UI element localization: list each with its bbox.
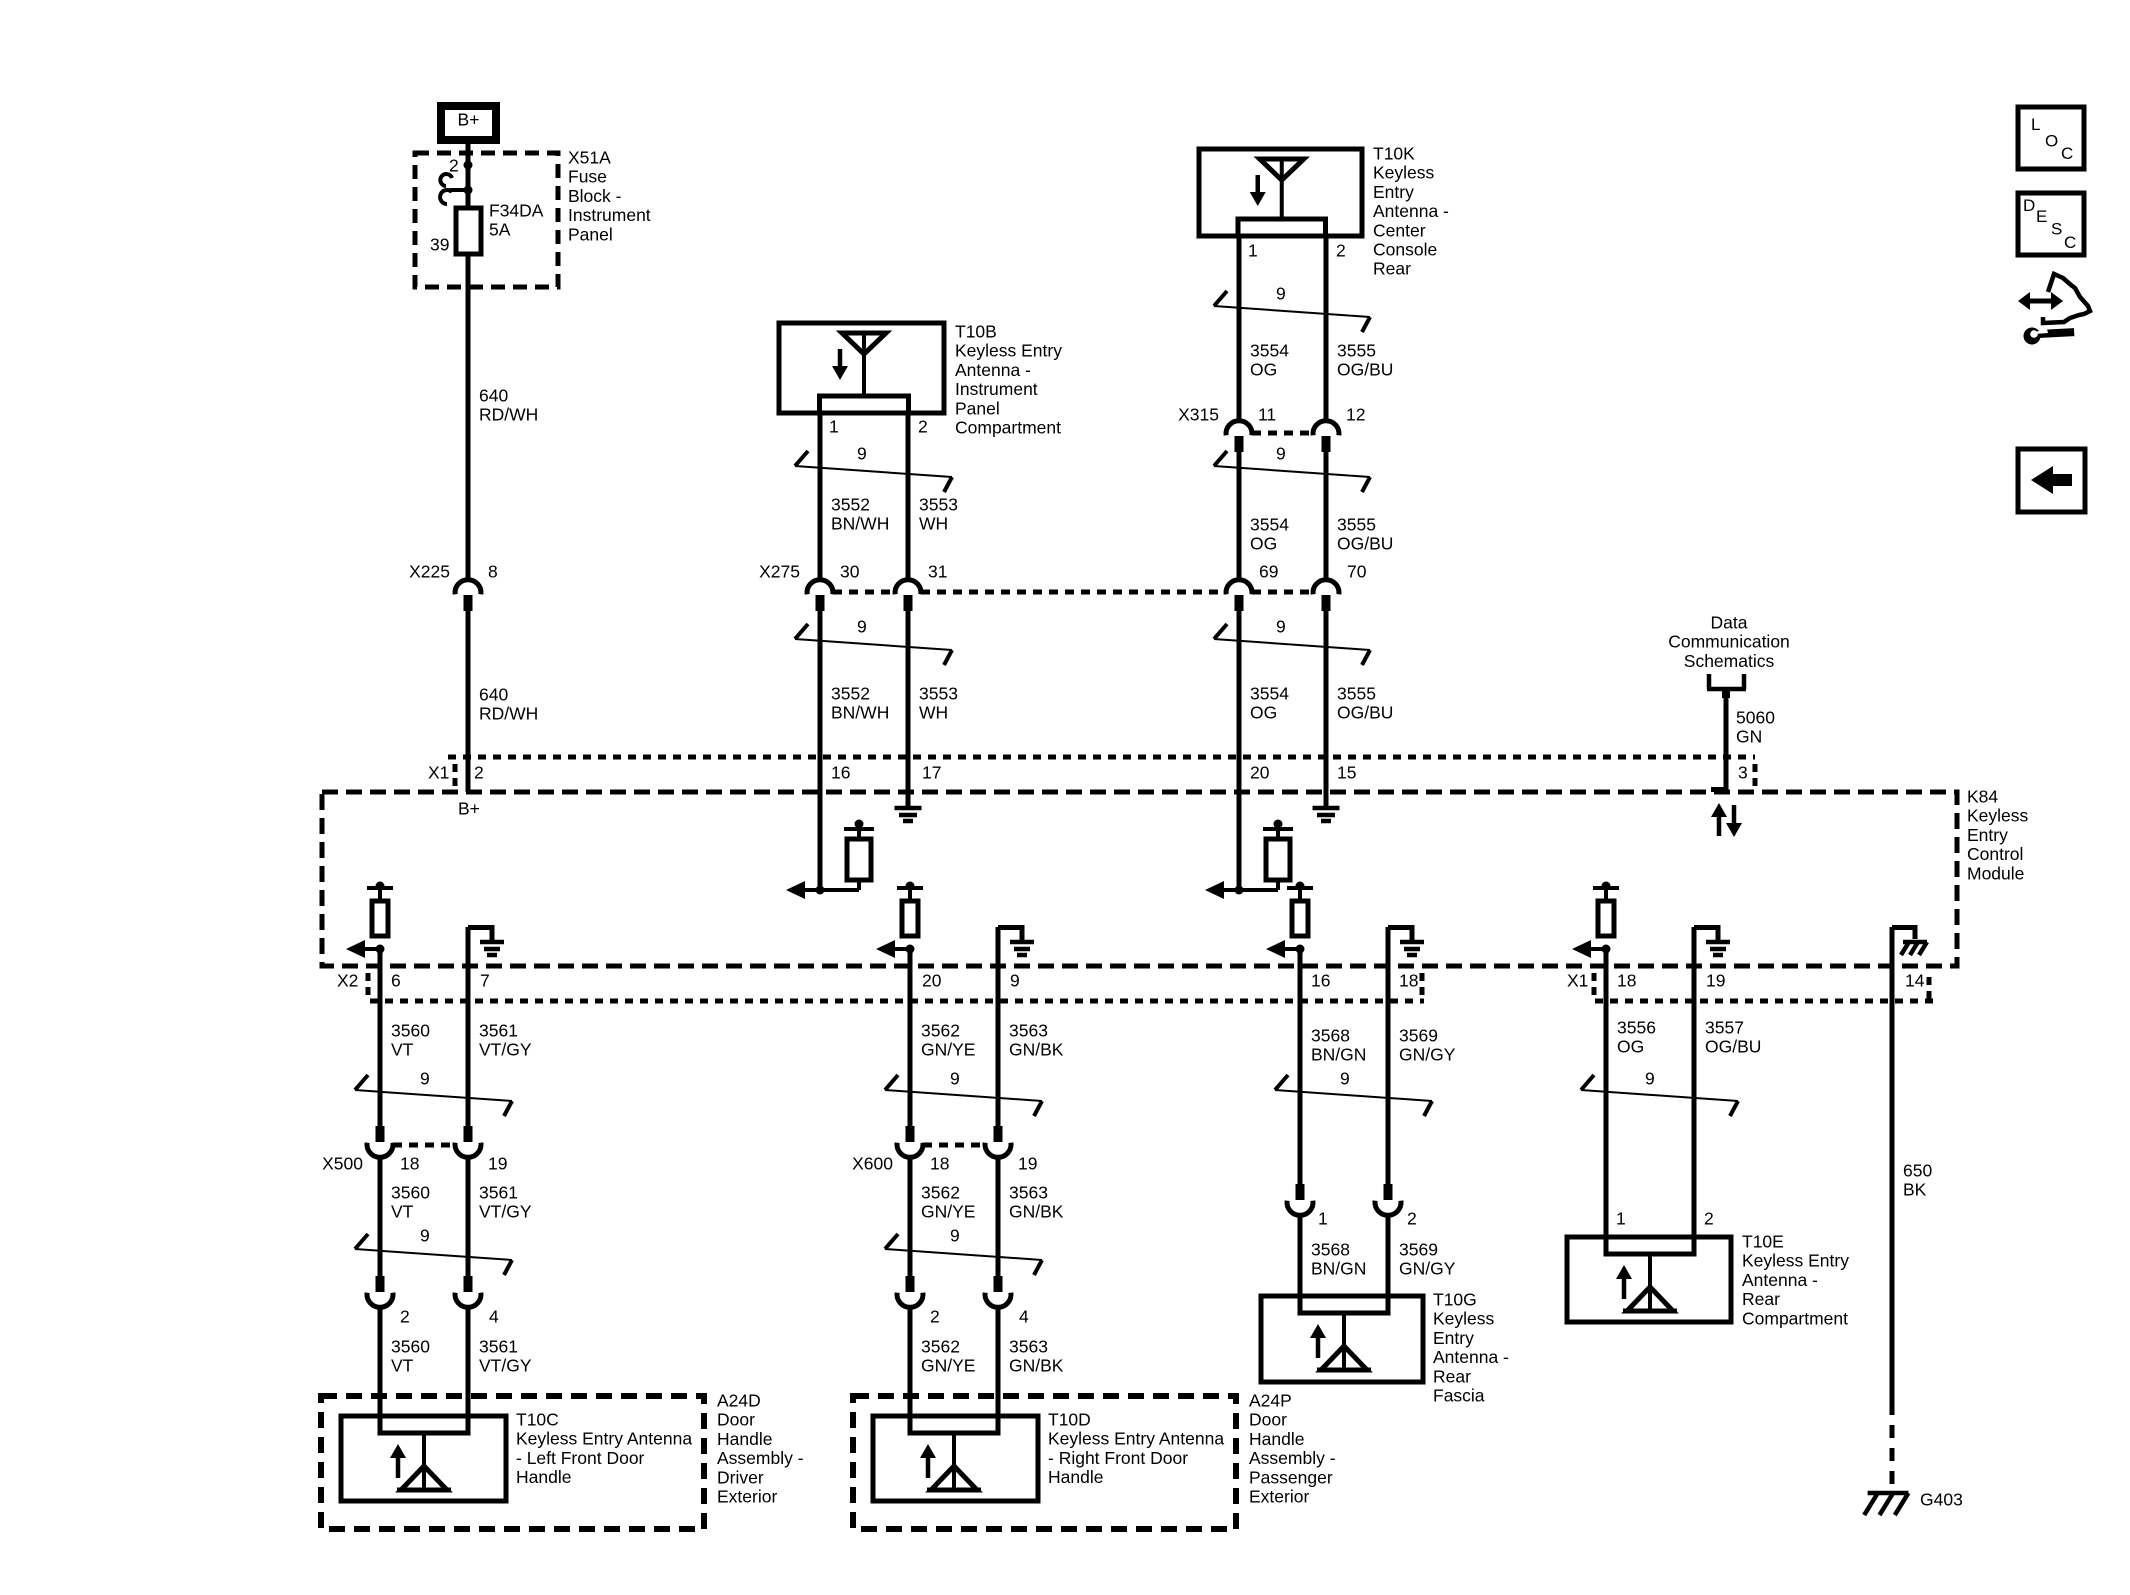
label 3569 GN/GY (row2) bbox=[1399, 1240, 1456, 1279]
svg-text:9: 9 bbox=[420, 1226, 430, 1246]
connector strip X1 (top) bbox=[428, 757, 1755, 790]
pin 39 label bbox=[430, 235, 449, 255]
svg-text:Panel: Panel bbox=[568, 224, 613, 244]
svg-text:X1: X1 bbox=[1567, 971, 1588, 991]
wire 3554 X275 to K84 X1-20 bbox=[1237, 611, 1242, 761]
svg-text:VT: VT bbox=[391, 1202, 414, 1222]
svg-text:3561: 3561 bbox=[479, 1183, 518, 1203]
svg-text:1: 1 bbox=[1616, 1209, 1626, 1229]
wire 3553 X275 to K84 X1-17 bbox=[906, 611, 911, 761]
svg-text:18: 18 bbox=[1617, 971, 1636, 991]
svg-text:Rear: Rear bbox=[1742, 1289, 1780, 1309]
pin 2 label (T10K) bbox=[1336, 241, 1346, 261]
svg-text:9: 9 bbox=[857, 444, 867, 464]
label T10G Keyless Entry Antenna - Rear Fascia bbox=[1433, 1290, 1509, 1406]
svg-text:Instrument: Instrument bbox=[955, 379, 1038, 399]
pin 17 label (X1) bbox=[922, 763, 941, 783]
svg-text:39: 39 bbox=[430, 235, 449, 255]
label 3552 BN/WH (lower) bbox=[831, 684, 889, 723]
svg-text:BN/WH: BN/WH bbox=[831, 703, 889, 723]
svg-text:OG/BU: OG/BU bbox=[1337, 360, 1393, 380]
svg-text:WH: WH bbox=[919, 514, 948, 534]
label B+ (module internal) bbox=[458, 799, 480, 819]
svg-text:Handle: Handle bbox=[1048, 1467, 1103, 1487]
svg-text:3562: 3562 bbox=[921, 1337, 960, 1357]
pin 7 label (X2) bbox=[480, 971, 490, 991]
wire 3563 X600 to pin4 bbox=[996, 1158, 1001, 1276]
svg-text:Driver: Driver bbox=[717, 1467, 764, 1487]
svg-text:3554: 3554 bbox=[1250, 341, 1289, 361]
svg-text:A24D: A24D bbox=[717, 1391, 761, 1411]
svg-text:O: O bbox=[2045, 132, 2058, 151]
svg-text:9: 9 bbox=[1276, 617, 1286, 637]
svg-text:3552: 3552 bbox=[831, 495, 870, 515]
wire 650 BK dashed section bbox=[1890, 1402, 1895, 1491]
inline connector X275 pins 69 70 bbox=[1226, 562, 1367, 612]
ground symbol pin 19 (X1) bbox=[1694, 925, 1730, 955]
label A24D Door Handle Assembly - Driver Exterior bbox=[717, 1391, 804, 1507]
pin 2 label (T10B) bbox=[918, 417, 928, 437]
antenna driver circuit pin 20 (X2) bbox=[876, 882, 923, 959]
svg-text:GN/BK: GN/BK bbox=[1009, 1040, 1064, 1060]
inline connector T10G pin 2 bbox=[1375, 1184, 1417, 1229]
label 3568 BN/GN (row1) bbox=[1311, 1026, 1366, 1065]
svg-text:A24P: A24P bbox=[1249, 1391, 1292, 1411]
svg-text:Antenna -: Antenna - bbox=[955, 360, 1031, 380]
label 3552 BN/WH (upper) bbox=[831, 495, 889, 534]
svg-text:OG: OG bbox=[1250, 534, 1277, 554]
fuse block X51A dashed box bbox=[415, 153, 558, 287]
pin 2 label (X1) bbox=[474, 763, 484, 783]
svg-text:18: 18 bbox=[1399, 971, 1418, 991]
svg-text:GN/BK: GN/BK bbox=[1009, 1356, 1064, 1376]
pin 16 label (X1) bbox=[831, 763, 850, 783]
battery feed B+ symbol bbox=[437, 102, 500, 144]
wire 3557 X1 to T10E bbox=[1692, 1001, 1697, 1254]
svg-text:Communication: Communication bbox=[1668, 632, 1790, 652]
label Data Communication Schematics bbox=[1668, 613, 1790, 671]
svg-text:3568: 3568 bbox=[1311, 1026, 1350, 1046]
wire 3568 to T10G bbox=[1298, 1216, 1303, 1313]
label 3553 WH (upper) bbox=[919, 495, 958, 534]
svg-text:18: 18 bbox=[400, 1154, 419, 1174]
wire 3562 X2 to X600 bbox=[908, 1001, 913, 1126]
label T10K Keyless Entry Antenna - Center Console Rear bbox=[1373, 144, 1449, 279]
connector strip X1 (bottom right) bbox=[1567, 971, 1936, 1006]
svg-text:3563: 3563 bbox=[1009, 1183, 1048, 1203]
svg-text:Handle: Handle bbox=[516, 1467, 571, 1487]
label 3554 OG (upper) bbox=[1250, 341, 1289, 380]
svg-text:20: 20 bbox=[922, 971, 942, 991]
svg-text:VT/GY: VT/GY bbox=[479, 1356, 532, 1376]
svg-text:Module: Module bbox=[1967, 863, 2024, 883]
svg-text:Keyless Entry Antenna: Keyless Entry Antenna bbox=[516, 1429, 692, 1449]
svg-text:B+: B+ bbox=[458, 110, 480, 130]
fuse F34DA 5A bbox=[456, 208, 481, 254]
antenna T10K box bbox=[1199, 149, 1362, 236]
svg-text:Rear: Rear bbox=[1433, 1366, 1471, 1386]
svg-text:C: C bbox=[2064, 233, 2076, 252]
wire pin16 to X2 bbox=[1298, 949, 1303, 1001]
antenna T10G box bbox=[1261, 1296, 1423, 1382]
pin 18 label (X1 bottom) bbox=[1617, 971, 1636, 991]
svg-text:C: C bbox=[2061, 144, 2073, 163]
svg-text:VT/GY: VT/GY bbox=[479, 1040, 532, 1060]
svg-text:T10C: T10C bbox=[516, 1410, 559, 1430]
svg-text:X275: X275 bbox=[759, 562, 800, 582]
svg-text:3563: 3563 bbox=[1009, 1337, 1048, 1357]
door handle assembly A24D dashed box bbox=[321, 1396, 704, 1529]
svg-text:640: 640 bbox=[479, 685, 508, 705]
svg-text:69: 69 bbox=[1259, 562, 1278, 582]
ground symbol pin 18 (X2) bbox=[1388, 925, 1424, 955]
svg-text:Antenna -: Antenna - bbox=[1742, 1270, 1818, 1290]
label 3568 BN/GN (row2) bbox=[1311, 1240, 1366, 1279]
inline connector T10C pin 4 bbox=[455, 1276, 499, 1327]
label 650 BK bbox=[1903, 1161, 1932, 1200]
svg-text:RD/WH: RD/WH bbox=[479, 405, 538, 425]
svg-text:X500: X500 bbox=[322, 1154, 363, 1174]
wire pin19 to X1 bbox=[1692, 927, 1697, 1001]
antenna T10E box bbox=[1567, 1237, 1731, 1322]
wire B+ to fuse bbox=[466, 144, 471, 208]
svg-text:7: 7 bbox=[480, 971, 490, 991]
svg-text:Rear: Rear bbox=[1373, 259, 1411, 279]
svg-text:GN/GY: GN/GY bbox=[1399, 1259, 1456, 1279]
svg-text:Handle: Handle bbox=[1249, 1429, 1304, 1449]
pin 2 label (T10E) bbox=[1704, 1209, 1714, 1229]
svg-text:3555: 3555 bbox=[1337, 341, 1376, 361]
wire 3552 T10B to X275 bbox=[818, 413, 823, 579]
svg-text:GN/YE: GN/YE bbox=[921, 1040, 975, 1060]
svg-text:12: 12 bbox=[1346, 405, 1365, 425]
svg-text:K84: K84 bbox=[1967, 787, 1998, 807]
svg-text:X1: X1 bbox=[428, 763, 449, 783]
svg-text:Control: Control bbox=[1967, 844, 2023, 864]
svg-text:19: 19 bbox=[1706, 971, 1725, 991]
ground symbol pin 15 bbox=[1313, 808, 1340, 821]
svg-text:X600: X600 bbox=[852, 1154, 893, 1174]
svg-text:Passenger: Passenger bbox=[1249, 1467, 1333, 1487]
connector strip X2 (bottom left) bbox=[337, 971, 1424, 1002]
svg-text:Antenna -: Antenna - bbox=[1433, 1347, 1509, 1367]
svg-text:Schematics: Schematics bbox=[1684, 651, 1775, 671]
svg-text:16: 16 bbox=[831, 763, 850, 783]
svg-text:6: 6 bbox=[391, 971, 401, 991]
label 3562 GN/YE (row2) bbox=[921, 1183, 975, 1222]
inline connector T10D pin 4 bbox=[985, 1276, 1029, 1327]
svg-text:19: 19 bbox=[488, 1154, 507, 1174]
svg-text:Entry: Entry bbox=[1967, 825, 2008, 845]
label 3556 OG bbox=[1617, 1018, 1656, 1057]
svg-text:9: 9 bbox=[1276, 444, 1286, 464]
svg-text:Entry: Entry bbox=[1433, 1328, 1474, 1348]
svg-text:VT/GY: VT/GY bbox=[479, 1202, 532, 1222]
svg-text:650: 650 bbox=[1903, 1161, 1932, 1181]
label T10B Keyless Entry Antenna - Instrument Panel Compartment bbox=[955, 322, 1062, 438]
svg-text:Data: Data bbox=[1711, 613, 1748, 633]
svg-text:4: 4 bbox=[1019, 1307, 1029, 1327]
antenna T10B box bbox=[779, 323, 944, 413]
svg-text:BN/GN: BN/GN bbox=[1311, 1045, 1366, 1065]
svg-text:9: 9 bbox=[1276, 284, 1286, 304]
wire 3555 X275 to K84 X1-15 bbox=[1324, 611, 1329, 761]
svg-text:Entry: Entry bbox=[1373, 182, 1414, 202]
chassis ground symbol pin 14 bbox=[1892, 925, 1927, 955]
wire 3569 X2 to T10G pin2 bbox=[1386, 1001, 1391, 1184]
wire pin3 into module bbox=[1711, 757, 1726, 790]
label T10D Keyless Entry Antenna - Right Front Door Handle bbox=[1048, 1410, 1224, 1488]
svg-text:3557: 3557 bbox=[1705, 1018, 1744, 1038]
twisted pair T10E bbox=[1581, 1069, 1738, 1117]
svg-text:E: E bbox=[2036, 207, 2047, 226]
svg-text:Handle: Handle bbox=[717, 1429, 772, 1449]
svg-text:OG/BU: OG/BU bbox=[1705, 1037, 1761, 1057]
twisted pair T10C lower bbox=[355, 1226, 512, 1276]
svg-text:9: 9 bbox=[857, 617, 867, 637]
svg-text:X315: X315 bbox=[1178, 405, 1219, 425]
antenna driver circuit pin 6 (X2) bbox=[346, 882, 393, 959]
label 3563 GN/BK (row3) bbox=[1009, 1337, 1064, 1376]
label 640 RD/WH (upper) bbox=[479, 386, 538, 425]
wire pin15 into module bbox=[1324, 757, 1329, 806]
svg-text:2: 2 bbox=[474, 763, 484, 783]
svg-text:20: 20 bbox=[1250, 763, 1270, 783]
svg-text:X51A: X51A bbox=[568, 148, 611, 168]
antenna driver circuit pin 16 bbox=[786, 820, 874, 900]
wire 3555 T10K to X315 bbox=[1324, 236, 1329, 420]
wire 3553 T10B to X275 bbox=[906, 413, 911, 579]
svg-text:Assembly -: Assembly - bbox=[1249, 1448, 1336, 1468]
label 3560 VT (row2) bbox=[391, 1183, 430, 1222]
svg-text:3554: 3554 bbox=[1250, 515, 1289, 535]
label F34DA 5A bbox=[489, 201, 544, 240]
svg-text:OG/BU: OG/BU bbox=[1337, 703, 1393, 723]
svg-text:Keyless: Keyless bbox=[1373, 163, 1435, 183]
svg-text:X2: X2 bbox=[337, 971, 358, 991]
svg-text:18: 18 bbox=[930, 1154, 949, 1174]
wire 3563 X2 to X600 bbox=[996, 1001, 1001, 1126]
wire 3563 to T10D bbox=[996, 1308, 1001, 1433]
svg-text:2: 2 bbox=[918, 417, 928, 437]
pin 19 label (X1 bottom) bbox=[1706, 971, 1725, 991]
svg-text:T10K: T10K bbox=[1373, 144, 1415, 164]
svg-text:OG: OG bbox=[1250, 360, 1277, 380]
pin 15 label (X1) bbox=[1337, 763, 1356, 783]
inline connector X600 pins 18 19 bbox=[852, 1126, 1037, 1174]
svg-text:Instrument: Instrument bbox=[568, 205, 651, 225]
label 3560 VT (row1) bbox=[391, 1021, 430, 1060]
svg-text:19: 19 bbox=[1018, 1154, 1037, 1174]
svg-text:Center: Center bbox=[1373, 220, 1426, 240]
svg-text:2: 2 bbox=[1704, 1209, 1714, 1229]
svg-text:Fuse: Fuse bbox=[568, 167, 607, 187]
wire 3561 to T10C bbox=[466, 1308, 471, 1433]
twisted pair T10K lower bbox=[1214, 617, 1370, 666]
svg-text:Panel: Panel bbox=[955, 398, 1000, 418]
svg-text:1: 1 bbox=[1248, 241, 1258, 261]
inline connector T10G pin 1 bbox=[1287, 1184, 1328, 1229]
wire 5060 GN bbox=[1724, 693, 1729, 761]
module K84 dashed outline bbox=[322, 792, 1957, 966]
svg-text:2: 2 bbox=[930, 1307, 940, 1327]
wire pin7 to X2 bbox=[466, 927, 471, 1001]
svg-text:L: L bbox=[2031, 115, 2040, 134]
wire pin18 to X1 bbox=[1604, 949, 1609, 1001]
wire pin2 into module bbox=[466, 757, 471, 792]
inline connector X275 pins 30 31 bbox=[759, 562, 947, 612]
inline connector X315 pins 11 12 bbox=[1178, 405, 1365, 453]
svg-text:9: 9 bbox=[1645, 1069, 1655, 1089]
pin 14 label (X1 bottom) bbox=[1905, 971, 1925, 991]
svg-text:9: 9 bbox=[1010, 971, 1020, 991]
label 3555 OG/BU (middle) bbox=[1337, 515, 1393, 554]
svg-text:Block -: Block - bbox=[568, 186, 622, 206]
svg-text:2: 2 bbox=[449, 156, 459, 176]
ground symbol pin 7 bbox=[468, 925, 504, 955]
svg-text:B+: B+ bbox=[458, 799, 480, 819]
twisted pair T10K middle bbox=[1214, 444, 1370, 493]
svg-text:3552: 3552 bbox=[831, 684, 870, 704]
svg-text:1: 1 bbox=[829, 417, 839, 437]
label A24P Door Handle Assembly - Passenger Exterior bbox=[1249, 1391, 1336, 1507]
svg-text:BN/GN: BN/GN bbox=[1311, 1259, 1366, 1279]
svg-text:Keyless: Keyless bbox=[1967, 806, 2029, 826]
svg-text:WH: WH bbox=[919, 703, 948, 723]
ground symbol pin 17 bbox=[895, 808, 922, 821]
svg-text:T10D: T10D bbox=[1048, 1410, 1091, 1430]
label 5060 GN bbox=[1736, 708, 1775, 747]
svg-text:G403: G403 bbox=[1920, 1490, 1963, 1510]
svg-text:17: 17 bbox=[922, 763, 941, 783]
svg-text:9: 9 bbox=[950, 1226, 960, 1246]
svg-text:5A: 5A bbox=[489, 220, 511, 240]
svg-text:2: 2 bbox=[1407, 1209, 1417, 1229]
svg-text:BN/WH: BN/WH bbox=[831, 514, 889, 534]
pin 6 label (X2) bbox=[391, 971, 401, 991]
svg-text:2: 2 bbox=[400, 1307, 410, 1327]
svg-text:9: 9 bbox=[1340, 1069, 1350, 1089]
svg-text:Keyless Entry: Keyless Entry bbox=[1742, 1251, 1849, 1271]
twisted pair T10B upper bbox=[795, 444, 952, 493]
svg-text:3560: 3560 bbox=[391, 1021, 430, 1041]
wire pin20 into module bbox=[1237, 757, 1242, 890]
svg-text:OG: OG bbox=[1250, 703, 1277, 723]
svg-text:3561: 3561 bbox=[479, 1337, 518, 1357]
wire 3554 X315 to X275 bbox=[1237, 452, 1242, 579]
ground symbol pin 9 bbox=[998, 925, 1034, 955]
twisted pair T10B lower bbox=[795, 617, 952, 666]
inline connector X500 pins 18 19 bbox=[322, 1126, 507, 1174]
label 640 RD/WH (lower) bbox=[479, 685, 538, 724]
pin 1 label (T10E) bbox=[1616, 1209, 1626, 1229]
wire 3561 X500 to pin4 bbox=[466, 1158, 471, 1276]
svg-text:3553: 3553 bbox=[919, 495, 958, 515]
svg-text:T10E: T10E bbox=[1742, 1232, 1784, 1252]
antenna driver circuit pin 18 (X1) bbox=[1572, 882, 1619, 959]
svg-text:Exterior: Exterior bbox=[717, 1487, 777, 1507]
svg-text:5060: 5060 bbox=[1736, 708, 1775, 728]
svg-text:1: 1 bbox=[1318, 1209, 1328, 1229]
wire 3560 X500 to pin2 bbox=[378, 1158, 383, 1276]
label 3563 GN/BK (row1) bbox=[1009, 1021, 1064, 1060]
serial data arrows pin 3 bbox=[1711, 803, 1742, 837]
wire pin6 to X2 bbox=[378, 949, 383, 1001]
svg-text:F34DA: F34DA bbox=[489, 201, 544, 221]
svg-text:Keyless Entry Antenna: Keyless Entry Antenna bbox=[1048, 1429, 1224, 1449]
svg-text:GN/BK: GN/BK bbox=[1009, 1202, 1064, 1222]
wire pin20 to X2 bbox=[908, 949, 913, 1001]
svg-text:15: 15 bbox=[1337, 763, 1356, 783]
label 3554 OG (lower) bbox=[1250, 684, 1289, 723]
svg-text:14: 14 bbox=[1905, 971, 1925, 991]
svg-text:3561: 3561 bbox=[479, 1021, 518, 1041]
label 3555 OG/BU (upper) bbox=[1337, 341, 1393, 380]
pin 1 label (T10B) bbox=[829, 417, 839, 437]
svg-text:3555: 3555 bbox=[1337, 684, 1376, 704]
twisted pair T10D upper bbox=[885, 1069, 1042, 1117]
wire 3555 X315 to X275 bbox=[1324, 452, 1329, 579]
label 3561 VT/GY (row1) bbox=[479, 1021, 532, 1060]
svg-text:3560: 3560 bbox=[391, 1337, 430, 1357]
wire 3568 X2 to T10G pin1 bbox=[1298, 1001, 1303, 1184]
pin 18 label (X2) bbox=[1399, 971, 1418, 991]
svg-text:9: 9 bbox=[420, 1069, 430, 1089]
svg-text:GN: GN bbox=[1736, 727, 1762, 747]
svg-text:9: 9 bbox=[950, 1069, 960, 1089]
label T10E Keyless Entry Antenna - Rear Compartment bbox=[1742, 1232, 1849, 1329]
svg-text:Exterior: Exterior bbox=[1249, 1487, 1309, 1507]
label 3561 VT/GY (row2) bbox=[479, 1183, 532, 1222]
svg-text:X225: X225 bbox=[409, 562, 450, 582]
svg-text:Keyless: Keyless bbox=[1433, 1309, 1495, 1329]
wire pin14 to X1 bbox=[1890, 927, 1895, 1001]
svg-text:Door: Door bbox=[717, 1410, 755, 1430]
antenna T10C box bbox=[341, 1416, 506, 1501]
wire pin9 to X2 bbox=[996, 927, 1001, 1001]
svg-text:3569: 3569 bbox=[1399, 1026, 1438, 1046]
pin 2 (X51A) bbox=[449, 156, 473, 176]
svg-text:3562: 3562 bbox=[921, 1021, 960, 1041]
wire pin17 into module bbox=[906, 757, 911, 806]
svg-text:3554: 3554 bbox=[1250, 684, 1289, 704]
svg-text:Compartment: Compartment bbox=[955, 418, 1061, 438]
svg-text:4: 4 bbox=[489, 1307, 499, 1327]
pin 1 label (T10K) bbox=[1248, 241, 1258, 261]
pin 20 label (X1) bbox=[1250, 763, 1270, 783]
pin 3 label (X1) bbox=[1738, 763, 1748, 783]
label T10C Keyless Entry Antenna - Left Front Door Handle bbox=[516, 1410, 692, 1488]
twisted pair T10C upper bbox=[355, 1069, 512, 1117]
wire 3562 X600 to pin2 bbox=[908, 1158, 913, 1276]
label 3557 OG/BU bbox=[1705, 1018, 1761, 1057]
wire 3552 X275 to K84 X1-16 bbox=[818, 611, 823, 761]
svg-text:Keyless Entry: Keyless Entry bbox=[955, 341, 1062, 361]
svg-text:31: 31 bbox=[928, 562, 947, 582]
svg-text:GN/YE: GN/YE bbox=[921, 1202, 975, 1222]
svg-text:30: 30 bbox=[840, 562, 860, 582]
svg-text:BK: BK bbox=[1903, 1180, 1927, 1200]
inline connector T10D pin 2 bbox=[897, 1276, 940, 1327]
svg-text:3568: 3568 bbox=[1311, 1240, 1350, 1260]
antenna driver circuit pin 20 bbox=[1205, 820, 1293, 900]
svg-text:RD/WH: RD/WH bbox=[479, 704, 538, 724]
wire pin16 into module bbox=[818, 757, 823, 890]
wire 3560 to T10C bbox=[378, 1308, 383, 1433]
wire 3560 X2 to X500 bbox=[378, 1001, 383, 1126]
wire 3554 T10K to X315 bbox=[1237, 236, 1242, 420]
svg-text:Fascia: Fascia bbox=[1433, 1386, 1485, 1406]
